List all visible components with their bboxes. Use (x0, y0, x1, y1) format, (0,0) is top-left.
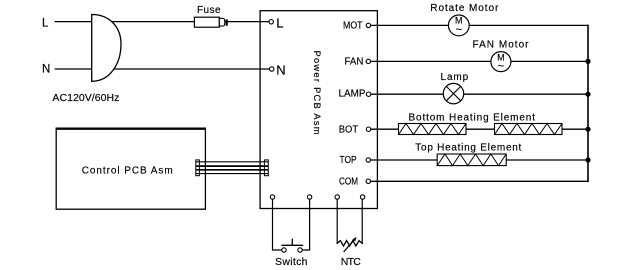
svg-text:FAN: FAN (345, 57, 364, 68)
svg-text:FAN Motor: FAN Motor (473, 39, 530, 50)
svg-text:L: L (276, 15, 283, 30)
svg-text:NTC: NTC (341, 256, 361, 268)
svg-text:Top Heating Element: Top Heating Element (415, 142, 521, 153)
svg-text:L: L (42, 18, 49, 30)
svg-text:Control PCB Asm: Control PCB Asm (82, 165, 173, 176)
svg-text:TOP: TOP (340, 154, 357, 165)
svg-text:COM: COM (339, 176, 358, 187)
svg-text:LAMP: LAMP (339, 88, 366, 99)
svg-text:Lamp: Lamp (441, 72, 469, 83)
svg-text:Switch: Switch (275, 256, 308, 268)
svg-text:N: N (42, 64, 50, 76)
svg-text:~: ~ (456, 24, 462, 36)
svg-text:~: ~ (498, 61, 504, 73)
svg-text:Power PCB Asm: Power PCB Asm (312, 51, 322, 135)
svg-text:AC120V/60Hz: AC120V/60Hz (52, 92, 119, 104)
svg-text:Fuse: Fuse (197, 5, 221, 16)
svg-text:MOT: MOT (343, 19, 363, 31)
svg-text:N: N (276, 63, 285, 78)
svg-text:BOT: BOT (339, 124, 358, 135)
svg-text:Rotate Motor: Rotate Motor (430, 3, 499, 14)
svg-text:Bottom Heating Element: Bottom Heating Element (409, 112, 536, 123)
